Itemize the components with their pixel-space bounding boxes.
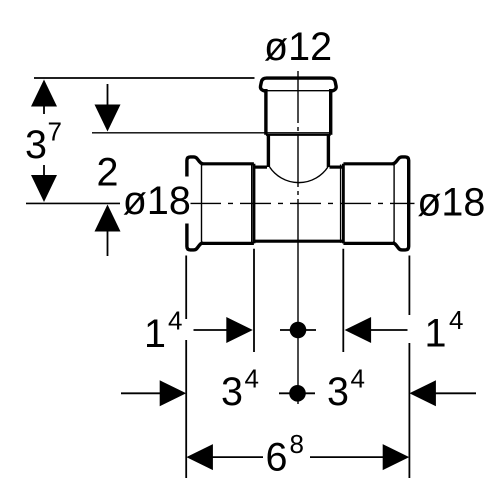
svg-text:3: 3	[327, 370, 349, 414]
dimension 1.4 right arrow	[345, 317, 372, 343]
svg-text:3: 3	[221, 370, 243, 414]
dimension 1.4 right line	[370, 329, 408, 331]
vertical centerline solid below body	[297, 244, 299, 404]
body top line middle-left	[254, 166, 267, 169]
body socket bottom line left	[202, 242, 254, 245]
svg-text:ø18: ø18	[417, 181, 485, 225]
extension line below right insertion	[342, 249, 344, 352]
dimension 1.4 left line	[194, 329, 228, 331]
dimension 3.4 right arrow	[409, 380, 436, 406]
dimension 2 lower arrow tail	[107, 229, 109, 256]
svg-text:4: 4	[351, 364, 365, 394]
branch socket wall left	[264, 89, 267, 135]
dimension row2 center dot	[289, 385, 306, 402]
body bottom line middle	[254, 240, 344, 243]
dimension row1 center stub	[280, 329, 316, 331]
dimension 3.4 right tail	[435, 392, 476, 394]
extension line top (top of fitting, y=78)	[34, 77, 255, 79]
label halo left ø18	[120, 178, 191, 223]
dimension 2 lower arrow	[95, 205, 121, 232]
svg-text:ø18: ø18	[123, 179, 191, 223]
svg-text:ø12: ø12	[264, 25, 332, 69]
dimension 3.4 left tail	[121, 392, 162, 394]
body left insertion depth line	[251, 165, 253, 243]
branch socket step line	[266, 134, 331, 136]
svg-text:1: 1	[144, 312, 166, 356]
dimension 3.7 upper arrow tail	[43, 104, 45, 114]
branch bead lower edge line	[266, 90, 331, 92]
body top line middle-right	[330, 166, 344, 169]
svg-text:1: 1	[425, 312, 447, 356]
svg-text:4: 4	[449, 305, 463, 335]
body socket top line right	[343, 162, 394, 165]
svg-text:4: 4	[245, 364, 259, 394]
dimension row2 center stub	[279, 392, 315, 394]
svg-text:6: 6	[266, 436, 288, 480]
dimension 6.8 line left	[212, 456, 263, 458]
body socket top line left	[202, 162, 254, 165]
dimension 2 upper arrow	[95, 105, 121, 132]
branch-body weld transition arc	[270, 167, 328, 183]
horizontal centerline (dash-dot)	[190, 202, 415, 204]
dimension 2 upper arrow tail	[107, 84, 109, 108]
extension line below left insertion	[253, 249, 255, 352]
dimension 6.8 right arrow	[383, 444, 410, 470]
body right bead tangent line	[393, 164, 395, 244]
dimension 3.7 lower arrow	[31, 175, 57, 202]
body left socket step edge	[253, 164, 256, 244]
body right press bead	[393, 157, 409, 250]
branch tube wall left	[267, 135, 270, 167]
dimension row1 center dot	[290, 322, 307, 339]
svg-text:3: 3	[25, 123, 47, 167]
body left press bead top bump	[187, 157, 203, 177]
extension line below right bead	[408, 256, 410, 316]
body right insertion depth line	[340, 165, 342, 243]
extension line below left bead	[185, 256, 187, 320]
body left bead tangent line	[201, 164, 203, 244]
body socket bottom line right	[343, 242, 394, 245]
branch socket wall right	[329, 89, 332, 135]
dimension 6.8 line right	[310, 456, 384, 458]
extension line left at centerline level (y=203.4)	[26, 202, 123, 204]
branch tube wall right	[327, 135, 330, 167]
body left press bead bottom bump	[187, 224, 203, 250]
body right socket step edge	[342, 164, 345, 244]
svg-text:7: 7	[48, 117, 62, 147]
dimension 3.4 left arrow	[160, 380, 187, 406]
svg-text:8: 8	[290, 429, 304, 459]
dimension 3.7 upper arrow	[31, 80, 57, 107]
branch vertical centerline (dash-dot)	[297, 71, 299, 244]
dimension 6.8 left arrow	[186, 444, 213, 470]
svg-text:4: 4	[168, 306, 182, 336]
branch socket bead (top press bead)	[260, 78, 336, 91]
svg-text:2: 2	[97, 151, 119, 195]
dimension 3.7 lower arrow tail	[43, 165, 45, 178]
extension line branch insertion depth (y=132.8)	[92, 132, 330, 134]
dimension 1.4 left arrow	[226, 317, 253, 343]
